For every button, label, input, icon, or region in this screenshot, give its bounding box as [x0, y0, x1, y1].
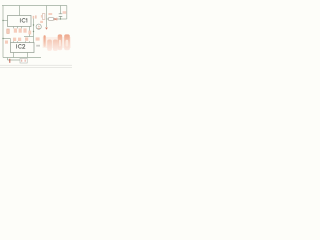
capacitor C2 [42, 14, 45, 20]
node junction mid vertical [33, 24, 34, 25]
label right of IC2 [36, 45, 40, 47]
wire top supply rail [2, 5, 67, 7]
node junction cap [60, 18, 61, 19]
label near IC1 pin 8 [33, 16, 35, 19]
wire battery branch [8, 58, 21, 61]
wire middle branch [46, 6, 48, 28]
op-amp IC2 label [17, 44, 25, 48]
battery B1 [9, 59, 11, 63]
transistor T1 red marks [38, 26, 40, 28]
label pin row IC2 a [13, 38, 16, 41]
label pin row IC2 c [25, 37, 28, 40]
capacitor C3 plates [59, 14, 63, 17]
wire IC2 top pin stubs [14, 41, 30, 42]
wire IC1 left input [3, 20, 8, 22]
wire IC2 left input [3, 39, 11, 43]
resistor R2 label [14, 28, 17, 32]
wire right vertical [66, 6, 68, 20]
label left of IC2 [5, 41, 8, 44]
wire IC2 bottom pin stubs [14, 53, 28, 58]
diode D1 [45, 28, 48, 30]
label pin row IC2 b [18, 38, 21, 41]
op-amp IC1 [8, 16, 32, 27]
node junction mid lower [33, 31, 34, 32]
wire IC1 to IC2 vertical [33, 16, 35, 43]
diode D2 [54, 18, 56, 21]
relay RL1 box [20, 58, 27, 63]
resistor R5 [49, 18, 54, 21]
capacitor C3 label [63, 11, 67, 14]
wire right horizontal [61, 18, 67, 20]
wire left vertical [2, 6, 4, 58]
transistor T1 [36, 24, 41, 29]
capacitor C2 polarity mark [41, 15, 42, 18]
relay RL1 contacts [22, 60, 25, 62]
label pin row IC2 d [36, 37, 40, 40]
diode D2 bar [56, 18, 58, 21]
wire diode row [47, 18, 61, 20]
resistor R3 label [19, 28, 22, 32]
wire cap branch [60, 6, 62, 20]
resistor R4 label [23, 28, 26, 32]
wire bottom ground rail [3, 57, 41, 59]
label near top middle [40, 21, 43, 23]
node junction left input [2, 20, 3, 21]
capacitor C1 label [28, 31, 31, 35]
resistor R1 [7, 29, 9, 33]
op-amp IC2 [11, 43, 35, 53]
wire IC1 pin to rail [19, 6, 21, 16]
zener Z1 mark [35, 15, 37, 18]
op-amp IC1 label [20, 19, 27, 23]
node junction left IC2 [2, 38, 3, 39]
wire IC1 pin stubs [14, 27, 34, 37]
resistor R5 label [48, 13, 52, 15]
